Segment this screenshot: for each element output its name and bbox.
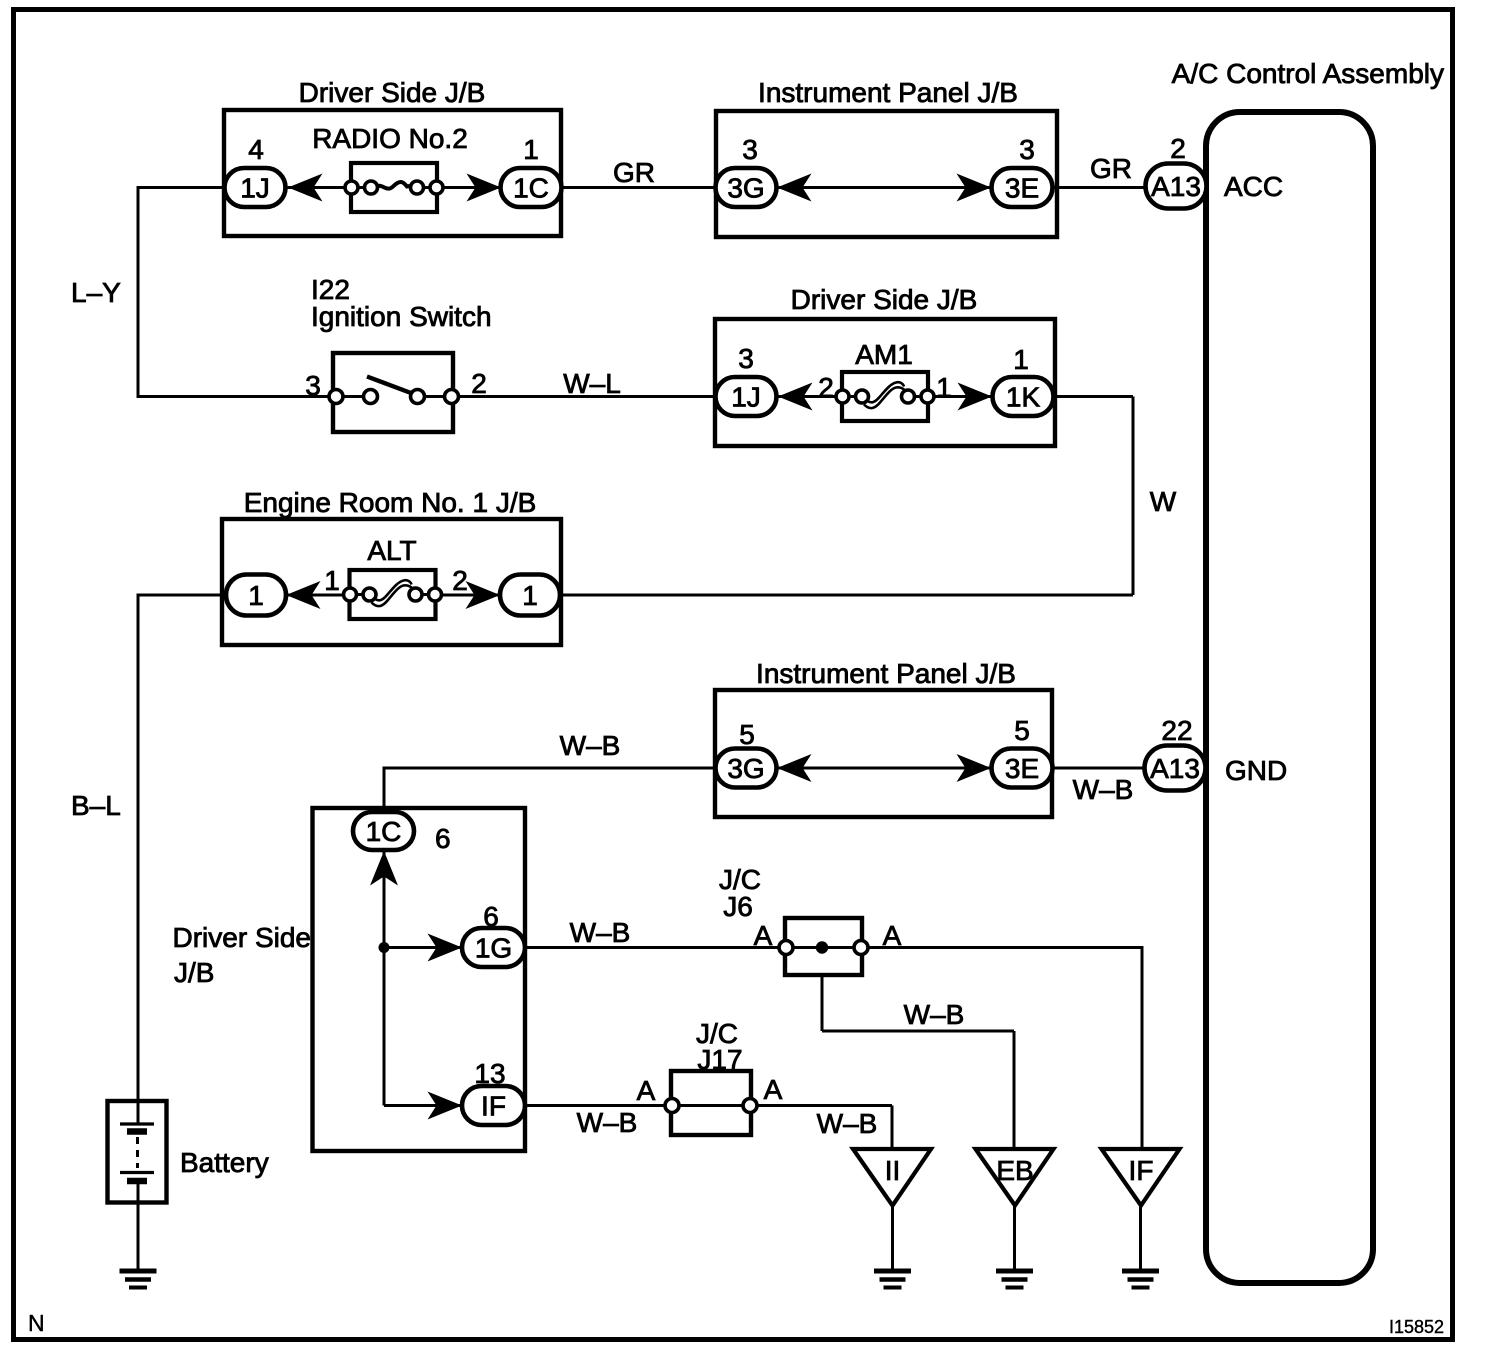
svg-text:Battery: Battery bbox=[180, 1147, 269, 1178]
svg-text:3E: 3E bbox=[1005, 173, 1039, 204]
svg-text:W–B: W–B bbox=[1073, 774, 1134, 805]
svg-text:IF: IF bbox=[481, 1091, 506, 1122]
svg-text:Engine Room No. 1 J/B: Engine Room No. 1 J/B bbox=[244, 487, 537, 518]
svg-text:1C: 1C bbox=[513, 173, 549, 204]
svg-text:AM1: AM1 bbox=[855, 339, 913, 370]
svg-text:A: A bbox=[764, 1074, 783, 1105]
svg-text:W: W bbox=[1150, 486, 1177, 517]
svg-text:3E: 3E bbox=[1005, 753, 1039, 784]
svg-text:I15852: I15852 bbox=[1389, 1317, 1444, 1337]
svg-text:Ignition Switch: Ignition Switch bbox=[311, 301, 492, 332]
svg-text:6: 6 bbox=[483, 901, 499, 932]
svg-text:A13: A13 bbox=[1150, 753, 1200, 784]
svg-text:A: A bbox=[754, 920, 773, 951]
svg-text:II: II bbox=[885, 1155, 901, 1186]
svg-text:2: 2 bbox=[1170, 133, 1186, 164]
svg-text:1J: 1J bbox=[240, 173, 270, 204]
svg-text:2: 2 bbox=[818, 372, 834, 403]
svg-text:1G: 1G bbox=[475, 933, 512, 964]
svg-text:EB: EB bbox=[996, 1155, 1033, 1186]
svg-text:J/B: J/B bbox=[174, 957, 214, 988]
svg-text:3G: 3G bbox=[727, 753, 764, 784]
svg-text:W–L: W–L bbox=[563, 368, 621, 399]
svg-text:GND: GND bbox=[1225, 755, 1287, 786]
svg-text:3: 3 bbox=[305, 370, 321, 401]
svg-text:6: 6 bbox=[435, 823, 451, 854]
svg-text:Driver Side J/B: Driver Side J/B bbox=[299, 77, 486, 108]
svg-text:GR: GR bbox=[1090, 153, 1132, 184]
svg-text:1: 1 bbox=[936, 372, 952, 403]
svg-text:J17: J17 bbox=[697, 1044, 742, 1075]
svg-text:Instrument Panel J/B: Instrument Panel J/B bbox=[756, 658, 1016, 689]
svg-text:Driver Side J/B: Driver Side J/B bbox=[791, 284, 978, 315]
svg-text:1: 1 bbox=[324, 565, 340, 596]
svg-text:1K: 1K bbox=[1006, 382, 1041, 413]
svg-text:1: 1 bbox=[1013, 344, 1029, 375]
svg-text:1J: 1J bbox=[731, 382, 761, 413]
svg-text:2: 2 bbox=[471, 368, 487, 399]
svg-text:B–L: B–L bbox=[71, 790, 121, 821]
svg-text:13: 13 bbox=[474, 1058, 505, 1089]
svg-text:A: A bbox=[637, 1075, 656, 1106]
svg-text:Driver Side: Driver Side bbox=[173, 922, 311, 953]
svg-text:W–B: W–B bbox=[904, 999, 965, 1030]
svg-text:Instrument Panel J/B: Instrument Panel J/B bbox=[758, 77, 1018, 108]
svg-text:ACC: ACC bbox=[1224, 171, 1283, 202]
svg-text:2: 2 bbox=[452, 565, 468, 596]
svg-text:RADIO No.2: RADIO No.2 bbox=[312, 123, 468, 154]
svg-text:GR: GR bbox=[613, 157, 655, 188]
svg-text:3: 3 bbox=[742, 134, 758, 165]
svg-text:W–B: W–B bbox=[577, 1107, 638, 1138]
svg-text:1: 1 bbox=[248, 580, 264, 611]
svg-text:4: 4 bbox=[248, 134, 264, 165]
svg-text:3G: 3G bbox=[727, 173, 764, 204]
svg-text:ALT: ALT bbox=[367, 535, 416, 566]
svg-text:A13: A13 bbox=[1151, 171, 1201, 202]
svg-text:3: 3 bbox=[1019, 134, 1035, 165]
svg-text:W–B: W–B bbox=[817, 1108, 878, 1139]
svg-text:5: 5 bbox=[1014, 715, 1030, 746]
svg-text:A: A bbox=[883, 920, 902, 951]
svg-text:IF: IF bbox=[1129, 1155, 1154, 1186]
svg-text:A/C Control Assembly: A/C Control Assembly bbox=[1172, 58, 1444, 89]
svg-text:1C: 1C bbox=[366, 816, 402, 847]
svg-text:3: 3 bbox=[738, 343, 754, 374]
svg-text:5: 5 bbox=[739, 719, 755, 750]
svg-text:J6: J6 bbox=[723, 891, 753, 922]
svg-text:1: 1 bbox=[523, 134, 539, 165]
svg-text:W–B: W–B bbox=[570, 917, 631, 948]
svg-text:W–B: W–B bbox=[560, 730, 621, 761]
svg-text:L–Y: L–Y bbox=[71, 277, 121, 308]
svg-text:22: 22 bbox=[1161, 715, 1192, 746]
svg-text:1: 1 bbox=[522, 580, 538, 611]
svg-text:N: N bbox=[28, 1310, 45, 1336]
